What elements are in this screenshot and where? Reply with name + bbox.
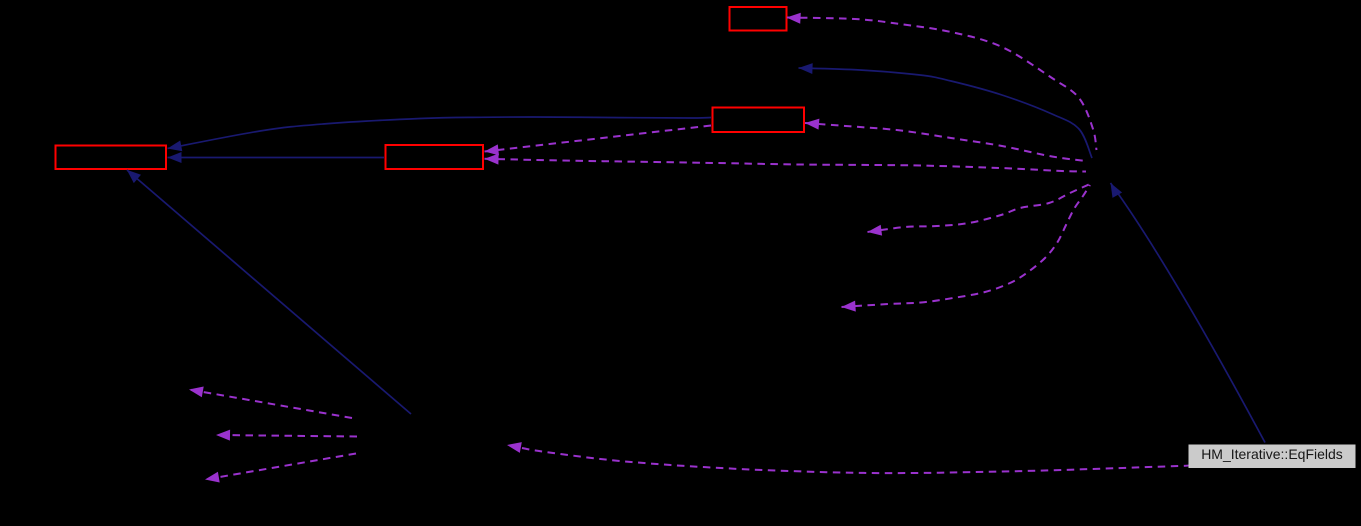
arrowhead blue lower at left box xyxy=(168,152,182,163)
node middle red box xyxy=(386,145,484,169)
wire blue edge second box to left box xyxy=(168,117,712,149)
arrowhead purple lower at middle box xyxy=(485,154,499,165)
node left red box xyxy=(56,146,167,170)
wire dashed edge bottom hub to hidden node F xyxy=(205,454,356,480)
wire blue edge hub to hidden node A xyxy=(799,68,1093,158)
wire blue edge EqFields to hub xyxy=(1111,183,1266,443)
wire dashed edge hub to middle box lower xyxy=(485,159,1087,172)
wire dashed edge hub to hidden node C xyxy=(842,185,1091,307)
wire dashed edge hub to second box xyxy=(805,123,1086,161)
wire dashed edge EqFields to bottom hub xyxy=(522,448,1189,473)
arrowhead blue upper at left box xyxy=(168,141,183,152)
arrowhead blue at left box bottom xyxy=(127,170,141,183)
arrowhead purple at hidden node F xyxy=(205,472,220,483)
node HM_Iterative::EqFields grey box xyxy=(1189,445,1356,469)
wire dashed edge bottom hub to hidden node D xyxy=(189,390,352,419)
wire blue edge bottom hub to left box xyxy=(127,170,411,414)
node second red box xyxy=(713,108,805,133)
arrowhead purple at hidden node D xyxy=(189,387,204,398)
arrowhead purple at bottom hub xyxy=(507,442,522,453)
node top red box xyxy=(730,7,787,31)
arrowhead purple at hidden node B xyxy=(868,225,883,236)
wire blue edge middle box to left box xyxy=(168,157,385,159)
wire dashed edge hub to hidden node B xyxy=(868,184,1091,232)
arrowhead purple upper at middle box xyxy=(485,144,500,155)
arrowhead purple at hidden node C xyxy=(842,301,856,312)
wire dashed edge bottom hub to hidden node E xyxy=(216,435,357,437)
wire dashed edge hub to top box xyxy=(787,18,1097,151)
arrowhead purple at hidden node E xyxy=(216,430,230,441)
arrowhead blue at hub from EqFields xyxy=(1111,183,1123,198)
svg-text:HM_Iterative::EqFields: HM_Iterative::EqFields xyxy=(1201,446,1343,462)
arrowhead purple at second box xyxy=(805,119,819,130)
arrowhead blue at hidden node A xyxy=(799,63,813,74)
arrowhead purple at top box xyxy=(787,13,801,24)
wire dashed edge second box to middle box xyxy=(485,126,712,152)
